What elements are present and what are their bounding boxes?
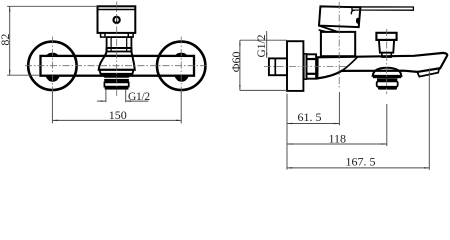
neck inner right line — [126, 37, 128, 51]
aerator bottom band — [378, 87, 397, 90]
left circle vertical centerline — [51, 37, 53, 96]
dimension 167.5 arrow right — [424, 167, 429, 168]
side view horizontal centerline — [264, 66, 347, 68]
diverter foot — [382, 53, 391, 57]
wall flange (escutcheon) — [287, 41, 303, 91]
spout-body fillet arc rising — [342, 57, 358, 71]
dimension 150 arrow left — [52, 120, 57, 121]
handle axis centerline — [338, 2, 340, 88]
aerator axis extension line — [386, 104, 388, 146]
aerator ring dark — [377, 78, 397, 81]
dimension 82 arrow up — [9, 6, 10, 11]
inlet pipe nut line — [274, 58, 276, 75]
outlet dome — [373, 68, 402, 76]
dimension G1/2 right ext — [125, 90, 127, 102]
dimension G1/2 side arrow — [266, 53, 267, 58]
center body bell — [99, 48, 135, 70]
dimension 118 arrow left — [287, 143, 292, 144]
handle box — [98, 6, 136, 33]
center column vertical centerline — [116, 2, 118, 97]
left union nut bottom dome — [45, 75, 60, 81]
cartridge collar — [321, 32, 355, 56]
diverter cap — [376, 33, 396, 40]
hex nut chamfer top — [307, 58, 317, 60]
left view horizontal centerline — [25, 65, 208, 67]
handle screw outer circle — [114, 17, 120, 23]
handle screw slot — [116, 17, 118, 24]
dimension G1/2 line left tail — [97, 100, 106, 102]
lever bar — [352, 7, 413, 10]
cartridge cover step — [319, 30, 328, 32]
svg-text:150: 150 — [109, 108, 127, 122]
body spout silhouette — [317, 53, 447, 79]
dimension 150 extension left — [51, 92, 53, 124]
right union nut top dome — [174, 53, 188, 57]
dimension 61.5 arrow left — [287, 123, 292, 124]
diverter axis centerline — [386, 29, 388, 94]
left foot step — [101, 33, 105, 37]
lever knob — [319, 6, 360, 27]
dimension 150 extension right — [180, 92, 182, 124]
dimension 118 line — [287, 143, 387, 145]
outlet dome base bar — [373, 76, 401, 78]
dimension 61.5 line — [287, 123, 339, 125]
dimension 150 arrow right — [176, 120, 181, 121]
aerator ring box — [377, 81, 398, 86]
outlet bottom dark band — [105, 87, 129, 90]
handle box cap line — [98, 9, 136, 11]
dimension phi60 top ext — [240, 39, 287, 41]
dimension G1/2 line right tail — [126, 100, 149, 102]
outlet upper dark band — [104, 79, 129, 82]
outlet collar band — [99, 70, 133, 74]
lever knob bottom slant — [319, 26, 338, 32]
dimension G1/2 left ext — [105, 90, 107, 102]
washer ring — [304, 54, 307, 79]
outlet dark ring — [104, 74, 130, 78]
body bar — [41, 56, 195, 76]
neck inner left line — [110, 37, 112, 51]
svg-text:82: 82 — [0, 34, 12, 46]
dimension 82 arrow down — [9, 70, 10, 75]
outlet threaded ring box — [104, 82, 128, 86]
dimension 61.5 arrow right — [334, 123, 339, 124]
dimension 82 line — [9, 6, 11, 75]
right wall flange circle — [157, 42, 205, 90]
dimension G1/2 arrow right — [126, 100, 131, 101]
dimension phi60 arrow down — [239, 85, 240, 90]
hex nut chamfer bottom — [307, 73, 317, 75]
dimension phi60 bottom ext — [240, 89, 287, 91]
left wall flange circle — [28, 42, 76, 90]
dimension 82 extension top — [7, 5, 97, 7]
dimension G1/2 arrow left — [101, 100, 106, 101]
spout tip face — [417, 68, 439, 77]
lever set screw — [356, 18, 360, 24]
dimension 150 line — [52, 119, 181, 121]
neck cylinder — [107, 37, 132, 51]
right union nut bottom dome — [174, 75, 189, 81]
lever bar hook — [351, 10, 354, 14]
svg-text:118: 118 — [329, 132, 347, 146]
handle axis extension line — [338, 92, 340, 125]
svg-text:Φ60: Φ60 — [229, 52, 243, 73]
svg-text:G1/2: G1/2 — [256, 34, 268, 57]
inlet pipe — [269, 58, 287, 75]
dimension phi60 arrow up — [239, 40, 240, 45]
right foot step — [128, 33, 133, 37]
left union nut top dome — [45, 53, 59, 57]
dimension 118 arrow right — [382, 143, 387, 144]
svg-text:61. 5: 61. 5 — [298, 110, 322, 124]
right circle vertical centerline — [180, 37, 182, 96]
dimension 82 extension bottom — [7, 74, 40, 76]
wall plane extension line — [286, 94, 288, 170]
dimension 167.5 arrow left — [287, 167, 292, 168]
union hex nut — [307, 54, 317, 78]
dimension 167.5 line — [287, 167, 429, 169]
spout tip extension line — [428, 69, 430, 170]
diverter body — [379, 40, 394, 53]
dimension phi60 line — [239, 40, 241, 90]
dimension G1/2 side leader — [266, 31, 268, 58]
svg-text:167. 5: 167. 5 — [346, 155, 376, 169]
svg-text:G1/2: G1/2 — [128, 91, 150, 103]
